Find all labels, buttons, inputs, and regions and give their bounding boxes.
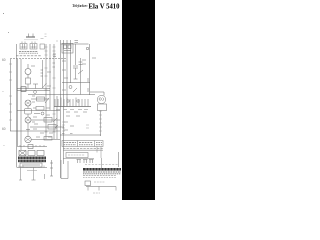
svg-text:Telefunken: Telefunken	[72, 3, 88, 8]
svg-text:Ela V 5410: Ela V 5410	[89, 2, 120, 11]
svg-text:~: ~	[2, 90, 4, 94]
svg-text:60: 60	[2, 58, 6, 62]
svg-text:~: ~	[3, 144, 5, 148]
svg-text:60: 60	[2, 127, 6, 131]
